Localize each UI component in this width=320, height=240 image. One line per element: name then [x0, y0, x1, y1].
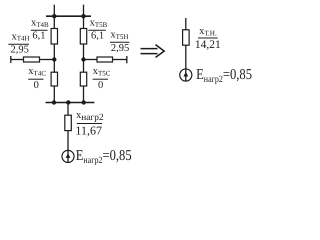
svg-text:0: 0: [98, 80, 103, 91]
svg-text:хТ4С: хТ4С: [28, 66, 46, 77]
svg-text:Енагр2=0,85: Енагр2=0,85: [76, 148, 132, 166]
svg-text:0: 0: [34, 80, 39, 91]
svg-text:хТ4В: хТ4В: [31, 18, 49, 29]
svg-text:6,1: 6,1: [91, 31, 104, 42]
svg-text:Енагр2=0,85: Енагр2=0,85: [196, 67, 252, 85]
svg-text:2,95: 2,95: [111, 43, 129, 54]
svg-text:хТ5С: хТ5С: [93, 66, 111, 77]
svg-text:11,67: 11,67: [75, 124, 102, 138]
svg-text:хнагр2: хнагр2: [76, 110, 104, 123]
svg-text:хТ5В: хТ5В: [90, 18, 108, 29]
svg-text:14,21: 14,21: [195, 39, 221, 51]
svg-text:хТ5Н: хТ5Н: [110, 30, 128, 41]
svg-text:6,1: 6,1: [32, 31, 45, 42]
svg-text:хТ4Н: хТ4Н: [12, 31, 30, 42]
svg-text:2,95: 2,95: [11, 45, 29, 56]
svg-text:хТ.Н.: хТ.Н.: [199, 26, 217, 37]
